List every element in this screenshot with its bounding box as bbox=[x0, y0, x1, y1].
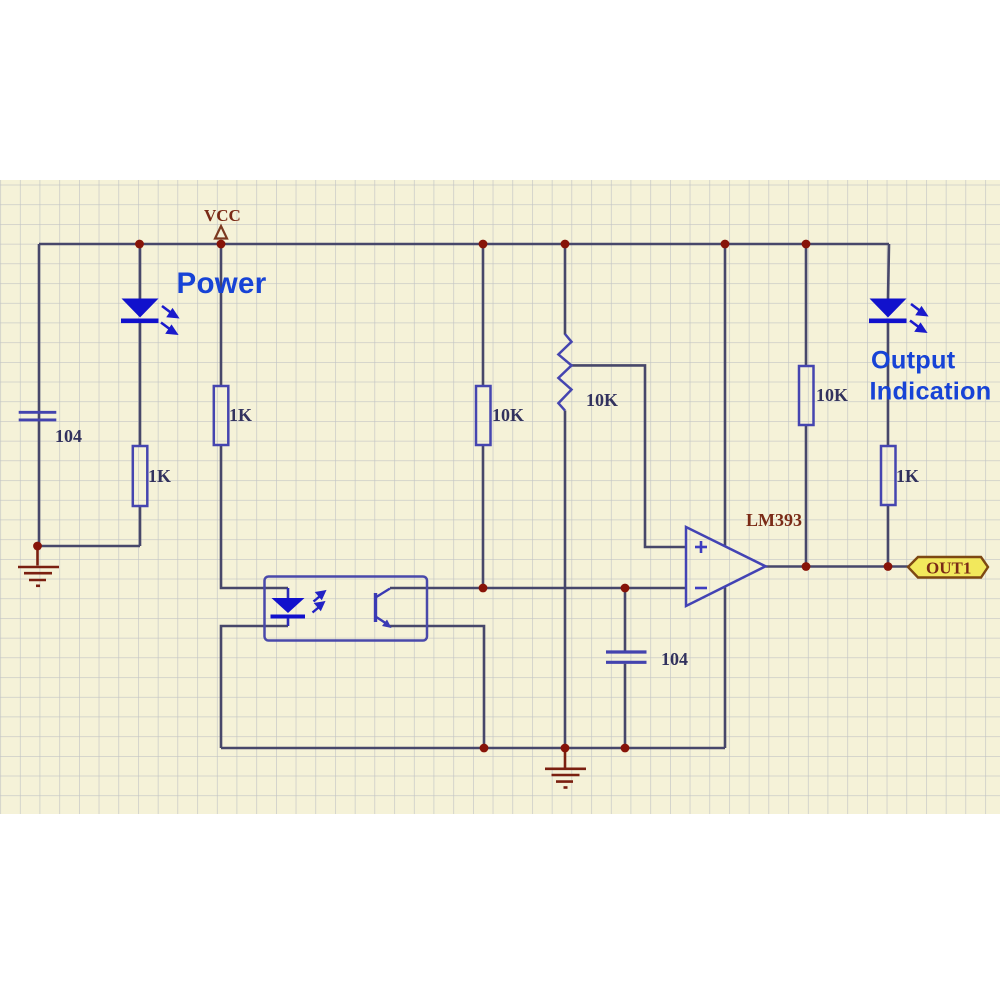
svg-text:1K: 1K bbox=[148, 466, 171, 486]
LED D2 (Output Indication) bbox=[869, 299, 907, 324]
capacitor C2 104 bbox=[606, 588, 647, 748]
svg-text:LM393: LM393 bbox=[746, 510, 802, 530]
svg-text:1K: 1K bbox=[229, 405, 252, 425]
junction: left ground node bbox=[33, 542, 42, 551]
svg-text:OUT1: OUT1 bbox=[926, 559, 971, 578]
junction: R2 branch on VCC rail bbox=[217, 240, 226, 249]
optocoupler U2 phototransistor bbox=[376, 589, 391, 625]
junction: C2 on inverting net bbox=[621, 584, 630, 593]
wire: R5 to output net bbox=[805, 425, 808, 567]
LED D1 emission arrows bbox=[161, 306, 177, 334]
LED D2 emission arrows bbox=[910, 304, 926, 332]
optocoupler U2 internal LED bbox=[271, 588, 306, 626]
schematic beige background bbox=[0, 180, 1000, 814]
op-amp U1 plus input marker bbox=[695, 541, 707, 553]
junction: R5 branch on VCC rail bbox=[802, 240, 811, 249]
ground GND1 bbox=[18, 546, 59, 586]
wire: bottom ground rail bbox=[221, 747, 725, 750]
wire: R1 bottom to ground net bbox=[139, 506, 142, 546]
resistor R5 10K bbox=[799, 366, 814, 425]
wire: VCC to potentiometer R4 bbox=[564, 244, 567, 335]
wire: op-amp V- pin to ground rail bbox=[724, 588, 727, 749]
port OUT1 bbox=[908, 557, 988, 578]
wire: VCC to R3 bbox=[482, 244, 485, 386]
junction: D1 branch on VCC rail bbox=[135, 240, 144, 249]
junction: R4 branch on VCC rail bbox=[561, 240, 570, 249]
svg-text:104: 104 bbox=[661, 649, 688, 669]
wire: D2 cathode to R6 bbox=[887, 322, 890, 447]
wire: opto collector to op-amp inverting input bbox=[390, 587, 687, 590]
wire: D1 anode bbox=[139, 244, 142, 300]
potentiometer R4 zigzag bbox=[558, 334, 571, 411]
wire: VCC to R2 bbox=[220, 244, 223, 386]
junction: emitter on ground rail bbox=[480, 744, 489, 753]
optocoupler U2 LED arrows bbox=[313, 592, 325, 613]
wire: R4 wiper to op-amp non-inverting input bbox=[571, 365, 688, 547]
svg-text:10K: 10K bbox=[816, 385, 848, 405]
wire: op-amp output to OUT1 port bbox=[766, 565, 909, 568]
wire: R4 bottom to ground rail bbox=[564, 411, 567, 749]
wire: VCC to op-amp V+ pin bbox=[724, 244, 727, 546]
wire: VCC rail corner down to D2 bbox=[888, 244, 889, 300]
power symbol VCC bbox=[204, 206, 241, 239]
junction: R6 on output net bbox=[884, 562, 893, 571]
op-amp U1 LM393 bbox=[686, 527, 766, 606]
svg-text:Power: Power bbox=[177, 267, 267, 300]
svg-text:VCC: VCC bbox=[204, 206, 241, 225]
wire: ground node horizontal to R1 bottom bbox=[37, 545, 140, 548]
svg-text:1K: 1K bbox=[896, 466, 919, 486]
junction: R4/GND2 on ground rail bbox=[561, 744, 570, 753]
svg-text:Indication: Indication bbox=[870, 378, 992, 406]
wire: VCC top rail bbox=[39, 243, 889, 246]
capacitor C1 104 bbox=[19, 412, 57, 420]
ground GND2 bbox=[545, 748, 586, 788]
wire: R2 to opto LED anode bbox=[221, 445, 288, 588]
wire: R6 to output net bbox=[887, 505, 890, 567]
svg-text:104: 104 bbox=[55, 426, 82, 446]
optocoupler U2 box bbox=[265, 577, 428, 641]
junction: op-amp supply on VCC rail bbox=[721, 240, 730, 249]
resistor R6 1K bbox=[881, 446, 896, 505]
resistor R2 1K bbox=[214, 386, 229, 445]
junction: R5 on output net bbox=[802, 562, 811, 571]
wire: VCC to R5 bbox=[805, 244, 808, 366]
resistor R3 10K bbox=[476, 386, 491, 445]
op-amp U1 minus input marker bbox=[695, 587, 707, 590]
junction: C2 on ground rail bbox=[621, 744, 630, 753]
wire: opto emitter to ground rail bbox=[389, 626, 484, 748]
resistor R1 1K bbox=[133, 446, 148, 506]
svg-text:Output: Output bbox=[871, 347, 956, 375]
wire: R3 to inverting input net bbox=[482, 445, 485, 588]
optocoupler U2 emitter arrowhead bbox=[382, 620, 392, 629]
junction: R3 meets inverting net bbox=[479, 584, 488, 593]
LED D1 (Power) bbox=[121, 299, 159, 324]
wire: opto LED cathode return bbox=[221, 626, 288, 748]
junction: R3 branch on VCC rail bbox=[479, 240, 488, 249]
svg-text:10K: 10K bbox=[492, 405, 524, 425]
wire: D1 cathode to R1 bbox=[139, 322, 142, 447]
wire: left branch through C1 to ground node bbox=[38, 244, 41, 546]
svg-text:10K: 10K bbox=[586, 390, 618, 410]
